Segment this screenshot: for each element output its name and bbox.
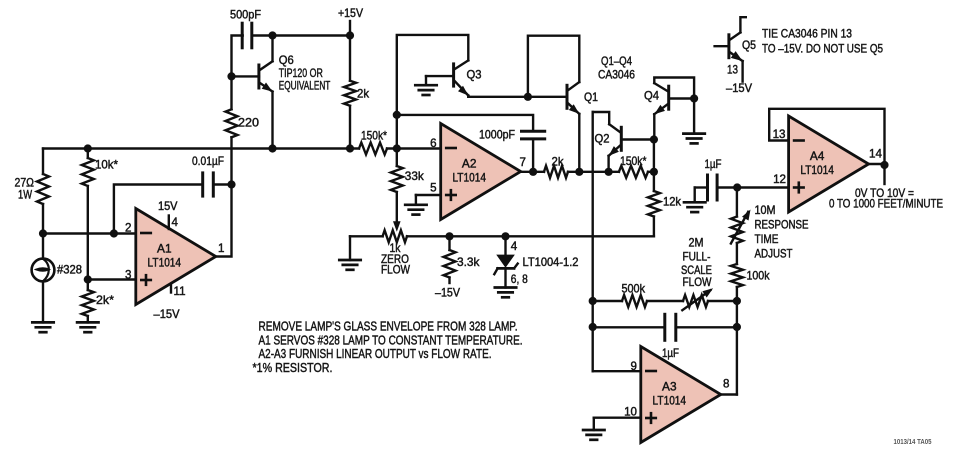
svg-text:10M: 10M [755, 204, 776, 217]
svg-text:3.3k: 3.3k [457, 256, 480, 269]
svg-text:LT1014: LT1014 [148, 257, 182, 270]
svg-text:12: 12 [773, 173, 786, 186]
svg-text:Q1–Q4: Q1–Q4 [601, 55, 632, 68]
svg-text:10: 10 [624, 405, 637, 418]
svg-text:1µF: 1µF [705, 158, 722, 171]
svg-text:ADJUST: ADJUST [755, 248, 793, 261]
svg-text:500pF: 500pF [230, 9, 261, 22]
svg-text:FLOW: FLOW [381, 264, 410, 277]
svg-text:Q2: Q2 [595, 133, 610, 146]
svg-text:Q1: Q1 [584, 91, 598, 104]
svg-text:A2: A2 [462, 158, 477, 171]
svg-text:TIP120 OR: TIP120 OR [279, 67, 323, 80]
svg-text:10k*: 10k* [95, 159, 118, 172]
svg-text:6, 8: 6, 8 [511, 273, 528, 286]
svg-text:14: 14 [869, 148, 883, 161]
svg-text:TO –15V. DO NOT USE Q5: TO –15V. DO NOT USE Q5 [762, 43, 883, 56]
svg-text:1: 1 [218, 242, 224, 255]
svg-text:1000pF: 1000pF [479, 129, 515, 142]
svg-text:12k: 12k [663, 196, 681, 209]
svg-text:A1: A1 [157, 243, 172, 256]
svg-text:1µF: 1µF [662, 347, 679, 360]
svg-text:15V: 15V [158, 200, 178, 213]
svg-text:2k: 2k [357, 88, 369, 101]
svg-text:EQUIVALENT: EQUIVALENT [279, 80, 331, 93]
svg-text:9: 9 [631, 360, 637, 373]
svg-text:Q4: Q4 [644, 90, 660, 103]
svg-text:–15V: –15V [726, 82, 752, 95]
svg-text:Q5: Q5 [742, 39, 756, 52]
svg-text:LT1014: LT1014 [653, 395, 687, 408]
svg-text:A1 SERVOS #328 LAMP TO CONSTAN: A1 SERVOS #328 LAMP TO CONSTANT TEMPERAT… [259, 333, 523, 347]
svg-text:LT1014: LT1014 [800, 164, 834, 177]
svg-text:*1% RESISTOR.: *1% RESISTOR. [253, 361, 333, 375]
svg-text:1W: 1W [18, 189, 32, 202]
svg-text:5: 5 [430, 182, 436, 195]
svg-text:LT1004-1.2: LT1004-1.2 [523, 256, 579, 269]
svg-text:100k: 100k [747, 270, 770, 283]
svg-text:2: 2 [125, 221, 131, 234]
svg-text:CA3046: CA3046 [598, 69, 635, 82]
svg-text:4: 4 [172, 216, 179, 229]
svg-text:0.01µF: 0.01µF [192, 155, 224, 168]
svg-text:150k*: 150k* [361, 130, 387, 143]
svg-text:REMOVE LAMP'S GLASS ENVELOPE F: REMOVE LAMP'S GLASS ENVELOPE FROM 328 LA… [259, 320, 518, 334]
svg-text:2k: 2k [552, 156, 564, 169]
svg-text:#328: #328 [57, 264, 82, 277]
svg-text:–15V: –15V [435, 287, 460, 300]
svg-text:11: 11 [174, 285, 186, 298]
svg-text:220: 220 [238, 117, 259, 130]
svg-text:A4: A4 [810, 150, 825, 163]
svg-text:2k*: 2k* [96, 294, 115, 307]
svg-text:7: 7 [520, 156, 526, 169]
svg-text:0 TO 1000 FEET/MINUTE: 0 TO 1000 FEET/MINUTE [829, 198, 943, 211]
svg-text:A3: A3 [662, 381, 677, 394]
svg-text:Q3: Q3 [467, 69, 482, 82]
svg-text:3: 3 [125, 268, 131, 281]
svg-text:13: 13 [727, 64, 738, 77]
svg-text:TIME: TIME [755, 233, 779, 246]
svg-text:Q6: Q6 [279, 54, 294, 67]
svg-text:TIE CA3046 PIN 13: TIE CA3046 PIN 13 [762, 28, 852, 41]
svg-text:FULL-: FULL- [683, 251, 711, 264]
svg-text:8: 8 [723, 378, 729, 391]
svg-text:6: 6 [430, 137, 436, 150]
svg-text:–15V: –15V [154, 308, 180, 321]
svg-text:A2-A3 FURNISH LINEAR OUTPUT vs: A2-A3 FURNISH LINEAR OUTPUT vs FLOW RATE… [259, 347, 492, 361]
svg-text:33k: 33k [405, 170, 424, 183]
svg-text:13: 13 [773, 128, 786, 141]
svg-text:2M: 2M [689, 237, 704, 250]
svg-text:+15V: +15V [338, 7, 363, 20]
svg-text:150k*: 150k* [620, 155, 647, 168]
svg-text:LT1014: LT1014 [452, 172, 486, 185]
svg-text:1013/14 TA05: 1013/14 TA05 [894, 437, 932, 446]
svg-text:4: 4 [511, 240, 518, 253]
svg-text:500k: 500k [622, 283, 646, 296]
svg-text:RESPONSE: RESPONSE [755, 219, 809, 232]
svg-text:FLOW: FLOW [683, 276, 712, 289]
